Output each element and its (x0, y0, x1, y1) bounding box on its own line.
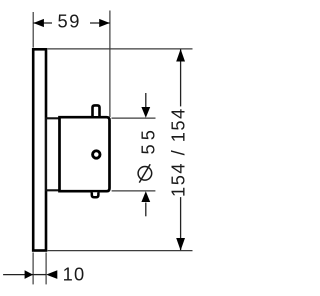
extension line left of 10 dim (32, 253, 34, 285)
diameter 55 upper leader line (145, 93, 147, 108)
154 bottom arrowhead (176, 238, 185, 251)
top stop tab on body (93, 105, 100, 116)
svg-text:55: 55 (137, 126, 158, 154)
valve body box (60, 117, 110, 191)
diameter 55 upper arrowhead pointing down (141, 107, 150, 118)
diameter symbol circle of 55 dim (138, 167, 152, 181)
59 dimension line right segment (90, 22, 110, 24)
59 left arrowhead (33, 19, 44, 27)
59 right arrowhead (99, 19, 110, 27)
diameter 55 lower leader line (145, 203, 147, 217)
screw hole circle (93, 151, 100, 158)
10 dimension line between extension lines (33, 274, 46, 276)
10 right arrowhead pointing left (46, 270, 57, 279)
wall plate (escutcheon) outline (33, 49, 46, 250)
154 dimension line upper segment (180, 49, 182, 106)
extension line left of 59 dim (32, 12, 34, 48)
59 dimension line left segment (33, 22, 52, 24)
extension line bottom of diameter 55 dim (112, 190, 156, 192)
10 dimension tail line left (3, 274, 33, 276)
extension line bottom of 154 dim (48, 250, 193, 252)
svg-text:10: 10 (63, 264, 86, 285)
collar between plate and valve body (46, 118, 59, 190)
154 dimension line lower segment (180, 197, 182, 250)
10 left arrowhead pointing right (25, 270, 33, 279)
svg-text:154 / 154: 154 / 154 (168, 107, 189, 197)
bottom stop tab on body (92, 192, 99, 197)
svg-text:59: 59 (58, 11, 82, 32)
extension line top of diameter 55 dim (112, 117, 156, 119)
extension line right of 59 dim (109, 11, 111, 118)
diameter 55 lower arrowhead pointing up (141, 191, 150, 202)
diameter symbol slash of 55 dim (139, 164, 150, 182)
extension line top of 154 dim (48, 48, 193, 50)
154 top arrowhead (176, 49, 185, 62)
extension line right of 10 dim (45, 253, 47, 285)
